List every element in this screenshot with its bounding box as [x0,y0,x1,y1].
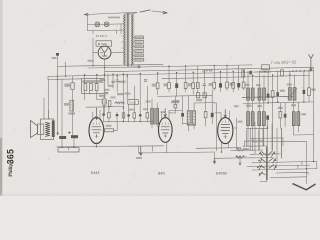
junction [65,75,66,76]
earth arrow big [293,184,316,190]
trimmer arrow coil C [288,88,297,99]
hung component a5 [192,83,195,89]
lamp L2 [104,22,109,27]
inductor loops [115,102,125,104]
capacitor mid 1 [112,81,115,82]
bottom rail m2 [196,147,241,150]
label 1W [106,125,112,127]
labels sprinkle rb [244,84,249,86]
label [52,57,57,59]
tube V1 cathode wire [95,142,97,147]
tube V3 inner marks [222,120,228,137]
wire rect left [93,52,98,54]
transformer T1 primary winding [124,15,125,64]
coil pair D [247,112,250,126]
electrolytic cap C left 2 [71,135,78,138]
wire cap drop [182,96,184,124]
hung component a8 [213,82,216,88]
tube V1 electrodes [92,127,101,138]
choke coil oval [102,98,107,106]
winding shade primary [123,14,126,65]
rail R1 [88,65,252,68]
wire box drop left [92,31,94,34]
small cap lower [105,92,108,93]
bottom rail m1 [139,152,215,153]
wire left drop [87,14,89,30]
wire flank left tube3 [215,103,217,151]
wire mid v1 [107,74,109,86]
components lower mid [279,111,282,118]
bottom rail m3 [215,157,241,159]
cap small upper [276,92,279,96]
tube V2 cathode [166,142,168,152]
tick T [152,146,154,151]
tube V1 output envelope [89,118,104,144]
tap label 4 [135,50,143,53]
bottom bus under tube1 [57,146,164,147]
capacitor IF side [181,113,184,117]
wire mid low h [86,106,123,109]
resistor 47 [174,104,177,108]
contact arm 6 [269,158,276,163]
label box 2m2 [128,100,139,105]
rail R5 mid right [242,96,293,97]
wire horiz mid [97,98,102,100]
speaker coil box [38,124,44,135]
switch ladder rung 7 [252,169,317,170]
tube V2 grid arrow [164,109,166,118]
arrow plug end [163,11,167,14]
junction [92,65,93,66]
wire lamp rail [88,23,125,26]
labels in box [83,80,103,82]
label resistor [65,84,71,87]
switch ladder rung 2 [231,149,264,151]
label uF [109,85,114,87]
contact arm 2 [260,158,265,163]
wire stub box [116,30,118,34]
hung component a6 [196,82,199,88]
switch shaft [266,147,268,181]
tap label 6 [135,58,143,61]
capacitor mid 2 [116,80,119,81]
wire left column [92,38,94,66]
tap sec 2 [133,41,135,43]
coil pair E [258,112,261,126]
switch S mains blade [140,10,150,12]
wire T1 bottom right [132,65,138,68]
wire tube3 grid link [194,103,221,113]
wire m1 left corner [138,146,140,153]
wire mid v5 [126,74,128,100]
wire bottom ladder h [104,120,154,123]
tap label 5 [135,54,143,57]
primary taps left [121,30,123,48]
extra label smudges mid [100,79,106,81]
bottom rail br4 [276,171,308,174]
label near z2 [245,148,250,150]
wire lamp lower rail [88,29,125,32]
rail R3 main bus [48,71,314,77]
component row y115 c5 [127,114,129,116]
junction dots br [313,161,314,162]
component right of IF c [211,113,214,117]
pickup terminal box [58,148,79,152]
transformer T1 secondary winding [132,14,133,64]
component row y115 c3 [116,114,119,116]
wire box right drop [96,75,98,84]
cap hung 250 [249,71,251,75]
wire tube3 bottom joint [221,151,222,152]
tube V3 cathode [222,142,229,152]
wire mid v4 [122,74,124,115]
winding shade secondary [131,14,134,66]
capacitor top left [56,53,59,56]
switch ladder rung 1 [243,145,267,147]
wire mid v3 [116,74,118,92]
wire spk top [47,110,49,119]
component row y115 c8 [146,113,149,118]
wire rect right [111,51,124,53]
label upper [280,90,285,92]
tap sec 1 [133,36,135,38]
wire stub [65,62,67,76]
contact dots [259,153,261,155]
component row y115 c1 [102,114,104,116]
wire cap1 to bottom [61,139,63,147]
component right of IF r [204,111,207,117]
wire mains top [86,12,138,14]
wire v protrude [134,74,147,108]
hung component a9 cap [219,83,222,87]
wires row down [104,96,158,128]
arrow under m3 [213,158,215,163]
routing seg b [244,141,263,146]
speaker cone [31,121,38,138]
transformer T1 core [128,13,129,66]
label near ground [136,157,142,159]
wires [206,90,213,126]
switch ladder rung 6 [247,165,310,166]
wire cap drop 2 [72,90,74,135]
scan edge shade left [0,0,3,196]
resistor left lower [70,100,74,111]
wire cap2 to bottom [73,138,75,147]
wire mains to plug [152,11,167,13]
wire T1 top tap [125,14,132,15]
verticals upper joins [248,71,309,104]
IF top wires [189,96,194,111]
scan noise [4,6,310,192]
resistor zigzag z2 [236,156,244,159]
hung component a2 [168,83,171,89]
wire under box [85,91,97,100]
routing seg top [253,138,307,142]
wire flank right tube3 [236,128,238,147]
tube V1 top pins [93,110,100,120]
tap label 3 [135,45,143,48]
wire anode side [103,122,118,131]
rectifier anodes [100,49,107,57]
junction dots rb [247,97,248,98]
wire cap drop 1 [61,79,63,136]
label 12V [260,71,271,73]
resistor left upper [71,83,74,90]
resistor zigzag z1 [236,148,244,151]
output transformer winding [45,122,50,136]
junction dots rails mid [104,74,105,75]
oscillator coil core [154,108,156,125]
resistor upper [271,91,274,98]
hung component a4 [184,82,187,88]
cathode ground arrow mid [139,146,142,155]
tube V3 electrodes [221,124,230,138]
resistor box 3 [95,84,98,91]
oscillator coil bar a [151,109,154,125]
tube V2 envelope [159,118,173,143]
label under mains wire [108,17,120,19]
wire horiz top left [58,65,89,68]
wire anode top left [57,54,59,136]
junction [123,107,124,108]
tube V2 top pins [162,111,169,119]
tube V1 inner marks [93,122,99,137]
output transformer core dark [52,120,55,137]
label 5700 [99,95,106,97]
wire second row bus [158,95,212,96]
contact arm 3 [259,165,265,170]
label 4uF [88,60,94,62]
component row y115 c7 [139,114,142,116]
IF connect bars [187,111,195,126]
wire rect bottom [104,59,106,76]
rail R5a [243,96,294,97]
label 5000 [173,100,180,102]
scan edge shade bottom [0,194,320,197]
rail R2 [105,67,313,72]
rail R5c [246,127,268,129]
lamp L1 [95,22,100,27]
wire far right edge [313,67,315,161]
label 47 [171,101,179,103]
IF transformer winding a [187,111,190,125]
junction [84,74,85,75]
tube V3 envelope [218,118,233,144]
comp hung 281 [281,70,284,76]
IF transformer winding b [193,111,196,125]
hung component a13 [242,82,245,88]
capacitor lower dark [266,115,269,119]
label [64,103,69,106]
capacitor upper dark [267,94,270,98]
wire right edge drop [316,161,318,168]
resistor edge rb0 [242,70,245,77]
label near F [301,113,306,115]
component row y115 c4 [122,113,125,118]
wire z2 drop arrow [239,160,241,166]
tap sec 3 [133,45,135,47]
tap label 2 [135,41,143,44]
tube V3 grid arrow [224,110,226,118]
rail R0 [88,64,163,66]
wire choke feed [103,75,105,114]
resistor box 2 [90,84,93,91]
hung component a12 cap [237,83,240,87]
coil pair F [292,112,295,126]
rail R4 [162,75,310,78]
label R [311,88,315,90]
coil pair A [247,88,250,100]
label 50uF [119,81,126,83]
hung component a3 cap [175,83,178,88]
wire side pin [232,118,236,128]
junction [104,67,105,68]
tube V3 top pins [221,111,230,119]
capacitor right upper [303,90,306,94]
wire speaker right [47,80,49,120]
tube V2 electrodes [161,127,169,137]
junction dots ladder [123,121,124,122]
tap label smudges [136,37,142,38]
label box M3HE [96,41,112,46]
contact arm 5 [268,151,274,156]
IF bottom wires [189,125,194,131]
component box 12V [262,65,270,70]
resistor mid [108,101,111,107]
second row label [196,99,202,101]
wire T1 bottom left [124,64,126,66]
component row y115 c6 [133,113,136,118]
wire horiz link [183,122,189,124]
wire speaker left [43,98,45,119]
wire right drop [120,24,122,34]
junction dots on rails [157,72,158,73]
arrow mains left end [85,13,89,15]
wire 47 drop [169,97,175,114]
contact arm 1 [260,152,266,157]
wire drop m [214,152,216,158]
rectifier tube V4 [98,46,111,59]
label 20uF [69,112,76,114]
switch ladder rung 4 [241,157,273,159]
wire parallel left [48,76,82,79]
terminal circle [138,66,140,68]
wire z links [236,148,247,160]
coil pair C [289,88,292,101]
wire br corners [298,142,308,184]
junction [308,70,309,71]
wire tube2 anode link [169,109,182,111]
wire resistor top [72,76,74,83]
routing seg a [250,138,283,146]
plus marks caps [57,132,71,135]
label 50uF lower [117,93,124,95]
rail R5b [243,102,313,104]
label flank [238,121,243,123]
contact arm 4 [259,172,265,176]
bottom rail br5 [270,176,307,179]
verticals lower joins [248,100,298,158]
pickup tick [68,148,70,150]
contact arm 7 [269,165,276,170]
antenna arrow tip [310,68,312,71]
tap sec 6 [133,59,135,61]
speaker frame [41,119,54,140]
wire mid v2 [112,74,114,88]
hung component a7 cap [203,84,206,86]
wire horiz lower right [294,134,314,136]
tube V2 inner marks [162,122,168,136]
wires down into switch [246,122,281,163]
wire box left drop [84,75,86,84]
IF core [190,110,192,125]
junction dots R3 right [264,71,265,72]
second row rects mid [196,93,199,98]
switch ladder rung 3 [250,153,281,155]
junction [57,76,58,77]
hung component a11 [232,82,235,88]
tap sec 4 [133,50,135,52]
hung component a1 [156,83,159,89]
wire shaft bottom hook [260,180,267,182]
hung component a10 [226,82,229,88]
tap label 1 [135,36,143,39]
mains dropper box [82,79,105,94]
component row y115 c2 [108,113,111,118]
antenna symbol [309,54,314,70]
switch ladder rung 5 [252,161,317,162]
resistor right upper [308,88,311,96]
junction [96,74,97,75]
resistor box 1 [84,84,87,91]
resistor grid leak horizontal [105,129,114,132]
junction [61,146,62,147]
coil pair B [258,88,261,100]
electrolytic cap C left 1 [59,136,66,139]
tube V1 grid arrow [95,108,97,120]
wire T1 top to switch [133,12,137,13]
capacitor mid 3 [144,80,147,81]
oscillator coil bar b [156,109,159,125]
tap sec 5 [133,54,135,56]
